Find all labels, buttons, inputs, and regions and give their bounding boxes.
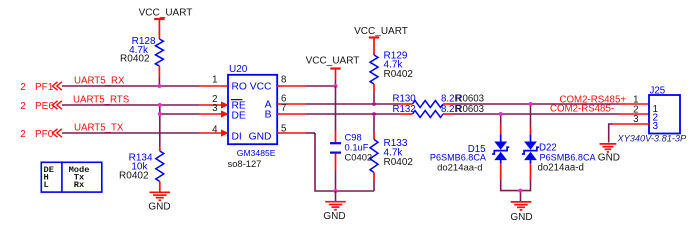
svg-text:R0402: R0402 — [384, 69, 414, 80]
junction R133/B — [372, 112, 376, 116]
svg-text:P6SMB6.8CA: P6SMB6.8CA — [430, 153, 487, 163]
svg-text:VCC_UART: VCC_UART — [354, 26, 408, 37]
svg-text:UART5_RX: UART5_RX — [74, 76, 125, 87]
ground GND (C98 rail) — [335, 191, 337, 202]
svg-text:3: 3 — [212, 103, 217, 114]
capacitor C98 0.1uF C0402 — [335, 131, 337, 142]
ground GND (diodes) — [511, 201, 532, 203]
svg-text:VCC_UART: VCC_UART — [139, 8, 193, 19]
svg-text:GND: GND — [510, 212, 532, 223]
svg-text:DI: DI — [232, 132, 242, 143]
svg-text:RO: RO — [232, 82, 247, 93]
svg-text:R0402: R0402 — [384, 157, 414, 168]
svg-text:GND: GND — [148, 202, 170, 213]
svg-text:UART5_TX: UART5_TX — [74, 123, 124, 134]
svg-text:VCC_UART: VCC_UART — [306, 56, 360, 67]
svg-text:R0603: R0603 — [456, 94, 485, 105]
svg-text:PE6: PE6 — [35, 101, 54, 112]
wire DE stub link — [160, 113, 199, 115]
svg-text:2: 2 — [20, 82, 26, 93]
svg-text:R0402: R0402 — [120, 54, 150, 65]
diode D15 P6SMB6.8CA — [500, 114, 502, 125]
junction D15/B — [499, 112, 503, 116]
svg-text:3: 3 — [653, 121, 659, 132]
wire B from pin7 — [306, 113, 400, 115]
svg-text:R0402: R0402 — [119, 171, 149, 182]
wire VCC column down to C98 — [335, 86, 337, 131]
op-amp U20 GM3485E body — [228, 75, 277, 144]
svg-text:PF1: PF1 — [35, 82, 54, 93]
table DE mode legend — [41, 162, 102, 192]
wire diode ground rail — [500, 164, 502, 180]
wire B to J25 pin2 — [453, 113, 619, 115]
junction D22/A — [529, 102, 533, 106]
svg-text:8: 8 — [281, 75, 286, 86]
svg-text:VCC: VCC — [250, 82, 272, 93]
svg-text:2: 2 — [20, 101, 26, 112]
junction DE — [158, 112, 162, 116]
svg-text:DE: DE — [232, 111, 246, 122]
wire UART5_RTS — [62, 104, 199, 106]
svg-text:2: 2 — [20, 129, 26, 140]
wire pin5 to ground rail — [306, 132, 315, 134]
wire J25 pin3 to ground — [609, 124, 612, 143]
svg-text:B: B — [265, 110, 272, 121]
svg-text:do214aa-d: do214aa-d — [437, 163, 482, 174]
svg-text:GM3485E: GM3485E — [237, 148, 276, 158]
svg-text:UART5_RTS: UART5_RTS — [73, 95, 130, 106]
svg-text:do214aa-d: do214aa-d — [538, 163, 584, 174]
svg-text:Rx: Rx — [74, 180, 84, 190]
svg-text:so8-127: so8-127 — [228, 158, 262, 169]
svg-text:COM2-RS485-: COM2-RS485- — [550, 104, 614, 115]
junction diode rail — [519, 189, 523, 193]
junction RTS — [158, 103, 162, 107]
svg-text:4: 4 — [212, 125, 218, 136]
wire UART5_TX — [62, 132, 199, 134]
diode D22 P6SMB6.8CA — [530, 104, 532, 127]
svg-text:GND: GND — [323, 211, 345, 222]
svg-text:U20: U20 — [229, 64, 248, 75]
svg-text:XY340V-3.81-3P: XY340V-3.81-3P — [617, 134, 687, 144]
ground GND (J25) — [599, 143, 616, 145]
wire UART5_RX — [62, 85, 199, 87]
svg-text:C0402: C0402 — [345, 152, 373, 163]
junction ground rail / C98 — [334, 189, 338, 193]
junction VCC/pin8 — [334, 84, 338, 88]
junction R128/UART5_RX — [157, 84, 161, 88]
svg-text:7: 7 — [281, 103, 286, 114]
ground GND (R134) — [150, 191, 171, 193]
wire A to J25 pin1 — [453, 103, 620, 105]
svg-text:GND: GND — [598, 153, 620, 164]
svg-text:P6SMB6.8CA: P6SMB6.8CA — [540, 153, 597, 163]
svg-text:1: 1 — [212, 75, 217, 86]
wire pin8 to VCC column — [306, 85, 336, 87]
svg-text:GND: GND — [249, 132, 272, 143]
svg-text:PF0: PF0 — [35, 129, 54, 140]
wire A from pin6 — [306, 103, 400, 105]
wire RTS to DE tie vertical — [159, 105, 161, 147]
junction R129/A — [372, 102, 376, 106]
svg-text:L: L — [44, 180, 49, 190]
